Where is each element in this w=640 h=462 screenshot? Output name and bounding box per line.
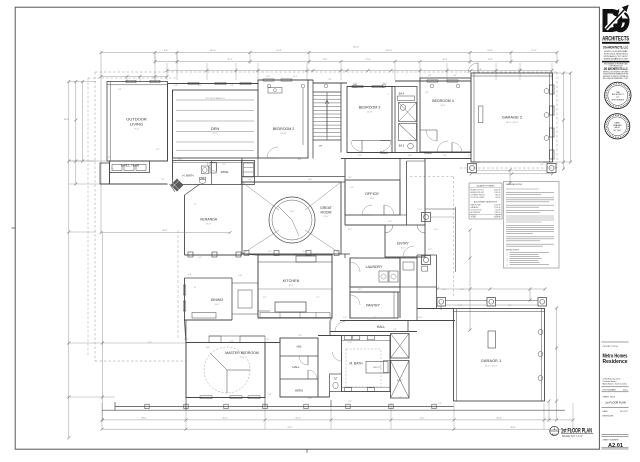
svg-text:DN: DN — [319, 146, 323, 148]
top overall dimension line — [100, 47, 559, 54]
svg-text:9'-6": 9'-6" — [328, 79, 332, 81]
svg-text:GRILL / BAR: GRILL / BAR — [121, 164, 140, 168]
svg-text:8'-6": 8'-6" — [164, 50, 168, 52]
svg-text:7,458 SF: 7,458 SF — [494, 217, 501, 219]
svg-text:17'-0": 17'-0" — [134, 129, 139, 131]
svg-text:21'-2": 21'-2" — [212, 133, 217, 135]
svg-text:15'-2": 15'-2" — [358, 289, 363, 291]
svg-text:6'-8": 6'-8" — [348, 401, 352, 403]
corridor wall right of office — [400, 159, 425, 226]
room bedroom 4 — [420, 78, 471, 152]
room pantry — [350, 292, 398, 318]
svg-text:6'-8": 6'-8" — [174, 85, 178, 87]
svg-text:8'-2": 8'-2" — [222, 164, 226, 166]
corridor wall above great room — [242, 159, 345, 183]
svg-text:14'-0": 14'-0" — [290, 211, 295, 213]
svg-text:13'-8": 13'-8" — [487, 50, 493, 52]
svg-text:ROOM: ROOM — [321, 211, 332, 215]
bath column BA3 BA4 — [395, 87, 417, 153]
svg-text:2'-6": 2'-6" — [106, 157, 110, 159]
svg-text:OFFICE: OFFICE — [365, 192, 379, 196]
svg-text:8'-0": 8'-0" — [401, 248, 405, 250]
svg-text:13'-0": 13'-0" — [214, 304, 219, 306]
entry porch columns — [422, 207, 456, 272]
svg-text:6'-8": 6'-8" — [540, 164, 544, 166]
architect logo DG — [602, 5, 630, 43]
svg-text:3'-0": 3'-0" — [161, 179, 165, 181]
room bedroom 3 — [347, 87, 392, 153]
svg-text:15'-2": 15'-2" — [434, 229, 439, 231]
svg-text:13'-0": 13'-0" — [367, 112, 372, 114]
svg-text:15'-2": 15'-2" — [178, 159, 183, 161]
svg-text:17'-8": 17'-8" — [365, 59, 370, 61]
svg-text:28'-6": 28'-6" — [64, 119, 70, 121]
svg-text:ATTIC: ATTIC — [397, 379, 403, 382]
svg-text:9'-6": 9'-6" — [438, 403, 442, 405]
top wall window symbols — [126, 79, 460, 88]
svg-text:WWW.DGARCH.COM: WWW.DGARCH.COM — [604, 57, 629, 60]
svg-text:12'-4": 12'-4" — [418, 317, 423, 319]
svg-text:13'-8": 13'-8" — [487, 59, 492, 61]
svg-text:HERS: HERS — [295, 389, 303, 393]
svg-text:15'-2": 15'-2" — [348, 229, 353, 231]
svg-text:FILE NUMBER: FILE NUMBER — [603, 389, 617, 391]
room master bedroom — [186, 343, 265, 399]
svg-text:12'-4": 12'-4" — [460, 289, 465, 291]
svg-text:420 SF: 420 SF — [495, 197, 500, 199]
svg-text:24'-0" x 23'-4": 24'-0" x 23'-4" — [506, 122, 519, 124]
svg-text:3'-0": 3'-0" — [266, 339, 270, 341]
svg-text:2'-6": 2'-6" — [373, 317, 377, 319]
room laundry — [350, 258, 400, 287]
svg-text:24'-0" x 25'-0": 24'-0" x 25'-0" — [485, 366, 498, 368]
svg-text:DG ARCHITECTS, LLC: DG ARCHITECTS, LLC — [603, 46, 628, 50]
svg-text:4'-10": 4'-10" — [348, 342, 353, 344]
svg-text:3'-0": 3'-0" — [443, 155, 447, 157]
svg-text:1,380 SF: 1,380 SF — [494, 212, 500, 214]
svg-text:74'-2": 74'-2" — [287, 427, 293, 429]
svg-text:4'-10": 4'-10" — [238, 275, 243, 277]
patio dimension line — [100, 230, 232, 421]
great room square and ceiling diagonals — [242, 182, 341, 256]
breakfast counter between dining and kitchen — [232, 283, 258, 314]
svg-text:OUTDOOR LIV: OUTDOOR LIV — [471, 209, 483, 211]
svg-text:9'-6": 9'-6" — [428, 249, 432, 251]
svg-text:OUTDOOR LIVING: OUTDOOR LIVING — [471, 197, 486, 199]
svg-text:24'-10": 24'-10" — [210, 50, 217, 52]
stair shaft lower — [384, 361, 410, 399]
main house left wall at den — [168, 84, 173, 179]
svg-text:15'-2": 15'-2" — [184, 339, 189, 341]
svg-text:14'-6": 14'-6" — [206, 347, 211, 349]
svg-text:SCALE: 1/4" = 1'-0": SCALE: 1/4" = 1'-0" — [562, 435, 583, 438]
svg-text:Residence: Residence — [603, 359, 628, 365]
svg-text:4'-0": 4'-0" — [350, 187, 354, 189]
title block sheet number A2.01 — [602, 439, 629, 449]
svg-text:5,050 SF: 5,050 SF — [494, 204, 500, 206]
svg-text:6'-8": 6'-8" — [408, 155, 412, 157]
svg-text:DINING: DINING — [211, 298, 224, 302]
svg-text:8'-0": 8'-0" — [188, 274, 192, 276]
svg-text:HALL: HALL — [424, 151, 432, 155]
area table block — [469, 183, 502, 219]
svg-text:8'-0": 8'-0" — [468, 155, 472, 157]
mud closet right of laundry — [400, 255, 437, 287]
svg-text:22'-0": 22'-0" — [295, 418, 300, 420]
svg-text:9'-6": 9'-6" — [248, 179, 252, 181]
svg-text:4'-10": 4'-10" — [478, 69, 483, 71]
room bedroom 2 — [258, 80, 308, 158]
svg-text:3'-0": 3'-0" — [343, 317, 347, 319]
svg-text:A2.01: A2.01 — [552, 433, 557, 436]
svg-text:BEDROOM 4: BEDROOM 4 — [432, 99, 454, 103]
fireplace diamond — [170, 179, 184, 192]
svg-text:27'-0": 27'-0" — [206, 224, 211, 226]
garage 2 corner columns — [468, 164, 557, 176]
top dimension extension lines — [155, 53, 557, 81]
svg-text:HALL: HALL — [292, 365, 300, 369]
svg-text:20'-2": 20'-2" — [227, 59, 232, 61]
svg-text:1,240 SF: 1,240 SF — [494, 192, 500, 194]
room entry — [385, 225, 425, 257]
svg-text:GREAT: GREAT — [320, 206, 333, 210]
room dining — [183, 278, 232, 320]
svg-text:FREE STD: FREE STD — [373, 367, 382, 369]
svg-text:1: 1 — [553, 427, 555, 431]
left segment dimension rows — [100, 53, 169, 233]
mud hall vertical walls — [417, 255, 547, 321]
svg-text:2'-6": 2'-6" — [398, 397, 402, 399]
svg-text:11'-0": 11'-0" — [323, 59, 328, 61]
svg-text:12'-4": 12'-4" — [473, 164, 478, 166]
room office — [345, 180, 400, 215]
svg-text:HALL: HALL — [380, 151, 388, 155]
svg-text:8'-0": 8'-0" — [148, 342, 152, 344]
svg-text:16'-4": 16'-4" — [442, 59, 447, 61]
svg-text:LIVING: LIVING — [130, 122, 143, 127]
svg-text:8'-0": 8'-0" — [268, 251, 272, 253]
svg-text:DG ARCHITECTS LLC: DG ARCHITECTS LLC — [604, 67, 628, 71]
svg-text:9'-6": 9'-6" — [388, 221, 392, 223]
room kitchen — [258, 255, 332, 318]
room den — [173, 90, 259, 158]
hbath and wine row — [173, 161, 255, 185]
room outdoor living — [110, 89, 168, 161]
svg-text:30'-0": 30'-0" — [496, 418, 501, 420]
svg-text:8'-0": 8'-0" — [230, 341, 234, 343]
svg-text:11'-6": 11'-6" — [370, 198, 375, 200]
master suite top wall — [186, 320, 280, 343]
svg-text:39'-8": 39'-8" — [510, 427, 516, 429]
svg-text:DEN: DEN — [211, 126, 220, 131]
svg-text:15'-4": 15'-4" — [531, 50, 537, 52]
svg-text:SHEET TITLE: SHEET TITLE — [603, 396, 616, 398]
svg-text:H. BATH: H. BATH — [182, 174, 193, 178]
svg-text:3'-0": 3'-0" — [348, 177, 352, 179]
svg-text:1,108 SF: 1,108 SF — [494, 207, 500, 209]
bottom dimension extension lines — [102, 403, 573, 429]
svg-text:BA.3: BA.3 — [399, 145, 405, 148]
right dimension line column — [469, 72, 573, 422]
svg-text:KITCHEN: KITCHEN — [283, 279, 300, 283]
scattered dimension annotations — [106, 69, 544, 405]
svg-text:6'-8": 6'-8" — [428, 75, 432, 77]
svg-text:BA.4: BA.4 — [399, 93, 405, 96]
room veranda — [185, 184, 243, 257]
svg-text:16'-0": 16'-0" — [288, 285, 293, 287]
svg-text:9'-6": 9'-6" — [298, 335, 302, 337]
svg-text:28'-0": 28'-0" — [141, 418, 146, 420]
exterior wall top row — [107, 80, 471, 161]
svg-text:22'-0": 22'-0" — [323, 216, 328, 218]
svg-text:GARAGE 1: GARAGE 1 — [481, 358, 502, 363]
svg-text:8'-0": 8'-0" — [198, 257, 202, 259]
svg-text:420 SF: 420 SF — [495, 209, 500, 211]
general notes block — [504, 182, 560, 269]
svg-text:19'-8": 19'-8" — [276, 50, 282, 52]
svg-text:COVERED PORCH: COVERED PORCH — [471, 195, 486, 197]
svg-text:4'-10": 4'-10" — [266, 76, 271, 78]
svg-text:DATE: DATE — [603, 410, 609, 413]
svg-text:Charlotte Harbor: Charlotte Harbor — [603, 380, 617, 383]
dashed roof overhang outline — [88, 72, 557, 361]
title block address — [603, 377, 629, 385]
svg-text:12'-4": 12'-4" — [308, 179, 313, 181]
svg-text:GARAGE 2: GARAGE 2 — [502, 115, 523, 120]
interior connecting walls — [185, 159, 454, 399]
top dimension line row 2 — [154, 59, 559, 63]
garage 1 walls — [454, 309, 545, 402]
bottom dimension line row 2 — [101, 427, 575, 431]
floor plan title text — [561, 427, 594, 438]
svg-text:KEYED NOTES: KEYED NOTES — [506, 249, 520, 251]
professional seal stamp 1 — [605, 82, 631, 108]
svg-text:43'-0": 43'-0" — [162, 230, 168, 232]
svg-text:TOTAL: TOTAL — [471, 216, 476, 219]
svg-text:ARCHITECTS: ARCHITECTS — [602, 36, 629, 43]
svg-text:13'-10": 13'-10" — [280, 133, 286, 135]
svg-text:1st FLOOR PLAN: 1st FLOOR PLAN — [605, 400, 626, 404]
svg-text:26'-4": 26'-4" — [222, 418, 227, 420]
professional seal stamp 2 — [605, 114, 630, 139]
room master bath — [333, 336, 391, 392]
svg-text:4'-10": 4'-10" — [303, 251, 308, 253]
svg-text:6'-2": 6'-2" — [425, 92, 429, 94]
architect address block — [602, 46, 630, 81]
svg-text:12'-4": 12'-4" — [293, 76, 298, 78]
title block sheet title — [602, 396, 629, 407]
garage 1 porch columns — [437, 298, 547, 311]
svg-text:Myrtle Beach, South Carolina: Myrtle Beach, South Carolina — [603, 383, 629, 386]
staircase — [313, 80, 341, 159]
svg-text:6'-8": 6'-8" — [393, 329, 397, 331]
svg-text:1st FLOOR PLAN: 1st FLOOR PLAN — [561, 427, 592, 434]
svg-text:VERANDA: VERANDA — [200, 218, 218, 222]
svg-text:REVISIONS: REVISIONS — [603, 416, 615, 418]
svg-text:12'-4": 12'-4" — [442, 289, 447, 291]
left dimension line column — [64, 80, 186, 439]
svg-text:HALL: HALL — [377, 325, 385, 329]
svg-text:4'-10": 4'-10" — [518, 69, 523, 71]
hall corridor lower — [330, 321, 455, 332]
svg-text:HIS: HIS — [297, 345, 302, 349]
svg-text:3'-0": 3'-0" — [198, 85, 202, 87]
svg-text:SQUARE FOOTAGES: SQUARE FOOTAGES — [477, 184, 496, 187]
rear porch walls bottom — [102, 398, 565, 411]
svg-text:15'-2": 15'-2" — [458, 305, 463, 307]
svg-text:GENERAL NOTES: GENERAL NOTES — [506, 183, 523, 186]
svg-text:6'-8": 6'-8" — [453, 75, 457, 77]
closets his hers hall — [280, 338, 318, 397]
svg-text:NO. 9841: NO. 9841 — [614, 130, 621, 132]
svg-text:8'-0": 8'-0" — [308, 398, 312, 400]
garage 2 walls — [468, 63, 554, 162]
svg-text:WINE: WINE — [221, 170, 229, 174]
svg-text:105'-2": 105'-2" — [353, 47, 360, 49]
svg-text:53'-10": 53'-10" — [386, 50, 393, 52]
svg-text:ARCH: ARCH — [615, 126, 621, 129]
svg-text:8'-0": 8'-0" — [298, 159, 302, 161]
bottom dimension line row 1 — [101, 418, 575, 422]
svg-text:1776 Waterway Drive: 1776 Waterway Drive — [603, 377, 621, 380]
svg-text:ADJUSTMENT UNDER ROOF: ADJUSTMENT UNDER ROOF — [474, 200, 497, 203]
svg-text:ENTRY: ENTRY — [397, 242, 409, 246]
svg-text:3,810 SF: 3,810 SF — [494, 190, 500, 192]
svg-text:PANTRY: PANTRY — [366, 304, 381, 308]
svg-text:PROJECT TITLE: PROJECT TITLE — [603, 346, 619, 348]
grill bar counter — [100, 161, 168, 184]
svg-text:5'-1": 5'-1" — [316, 297, 320, 299]
svg-text:TLT: TLT — [334, 379, 339, 381]
svg-text:BEDROOM 2: BEDROOM 2 — [273, 127, 295, 131]
svg-text:3'-0": 3'-0" — [358, 155, 362, 157]
svg-text:2'-6": 2'-6" — [230, 85, 234, 87]
svg-text:BEDROOM 3: BEDROOM 3 — [359, 106, 381, 110]
svg-text:15'-2": 15'-2" — [383, 83, 388, 85]
svg-text:17'-0": 17'-0" — [239, 357, 244, 359]
svg-text:2'-6": 2'-6" — [268, 394, 272, 396]
svg-text:6'-2": 6'-2" — [156, 149, 160, 151]
svg-text:LAUNDRY: LAUNDRY — [366, 265, 383, 269]
svg-text:M. BATH: M. BATH — [349, 362, 363, 366]
svg-text:13'-0": 13'-0" — [440, 105, 445, 107]
title block file number — [602, 387, 629, 392]
top dimension line row 3 — [166, 69, 554, 72]
svg-text:MASTER BEDROOM: MASTER BEDROOM — [225, 351, 259, 355]
svg-text:8'-0": 8'-0" — [508, 305, 512, 307]
svg-text:15'-2": 15'-2" — [418, 209, 423, 211]
svg-text:21'-0": 21'-0" — [419, 418, 424, 420]
svg-text:880 SF: 880 SF — [495, 195, 500, 197]
title block project title — [602, 342, 629, 365]
hall corridor upper — [341, 143, 471, 159]
svg-text:10.17.22: 10.17.22 — [620, 411, 629, 413]
svg-text:8'-2": 8'-2" — [263, 297, 267, 299]
elevator shaft upper — [391, 334, 410, 359]
svg-text:SHEET NUMBER: SHEET NUMBER — [603, 439, 619, 441]
great room circle ceiling — [269, 197, 333, 243]
toilet cell — [330, 374, 342, 392]
svg-text:9'-6": 9'-6" — [118, 89, 122, 91]
title block date and revisions — [602, 410, 629, 436]
svg-text:4'-10": 4'-10" — [353, 83, 358, 85]
svg-text:VLTD WOOD BEAM CLG: VLTD WOOD BEAM CLG — [205, 97, 225, 100]
floor plan title symbol — [550, 426, 559, 435]
svg-text:ALL RIGHTS RESERVED - 2022: ALL RIGHTS RESERVED - 2022 — [603, 77, 628, 80]
